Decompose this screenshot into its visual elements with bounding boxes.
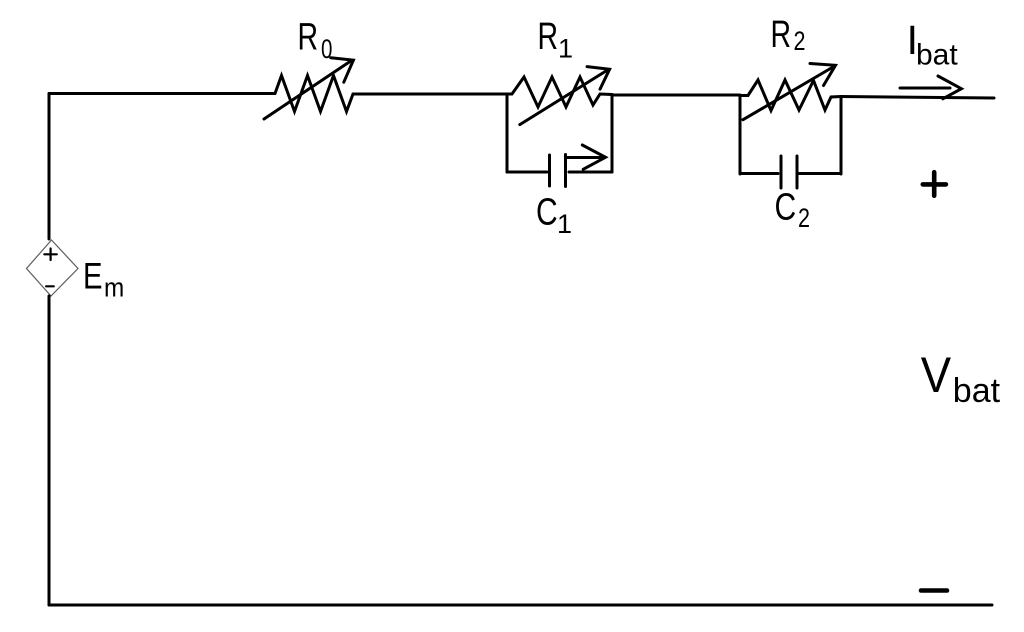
wire: top rail between R1 and R2 <box>612 94 740 97</box>
label Vbat <box>921 348 1001 410</box>
svg-text:V: V <box>921 348 951 403</box>
wire: C2 right lead <box>799 172 841 175</box>
label Ibat <box>907 17 959 72</box>
wire: top rail left segment <box>49 92 275 95</box>
resistor R1 (variable resistor: zigzag with diagonal arrow) <box>507 67 612 125</box>
wire: C2 left lead <box>740 172 778 175</box>
label Em <box>83 257 124 303</box>
svg-text:R: R <box>771 14 792 56</box>
resistor R0 (variable resistor: zigzag with diagonal arrow) <box>264 58 353 119</box>
label R2 <box>771 14 806 56</box>
wire: left vertical from Em to bottom rail <box>48 296 51 605</box>
svg-text:1: 1 <box>557 209 572 239</box>
capacitor C2 (plates) <box>781 156 797 188</box>
wire: R1 block right vertical <box>611 95 614 173</box>
label + (Vbat positive terminal) <box>923 172 946 196</box>
svg-text:R: R <box>298 17 319 59</box>
svg-text:m: m <box>104 273 124 302</box>
svg-text:2: 2 <box>794 27 806 57</box>
wire: top rail right segment <box>841 97 994 99</box>
svg-text:bat: bat <box>916 39 958 72</box>
current arrow Ibat <box>900 76 961 99</box>
svg-text:1: 1 <box>558 34 573 64</box>
wire: R2 block left vertical <box>739 96 742 175</box>
wire: C1 left lead <box>507 171 547 174</box>
svg-text:2: 2 <box>798 204 810 234</box>
label C1 <box>536 191 572 239</box>
wire: bottom rail <box>49 604 992 607</box>
wire: top rail between R0 and R1 <box>353 93 507 96</box>
label R1 <box>538 16 574 63</box>
voltage source Em (controlled-source diamond with + and - marks) <box>27 240 79 296</box>
label − (Vbat negative terminal) <box>921 588 947 593</box>
label R0 <box>298 17 333 65</box>
svg-text:R: R <box>538 16 559 58</box>
svg-text:C: C <box>775 186 797 228</box>
resistor R2 (variable resistor: zigzag with diagonal arrow) <box>740 64 841 120</box>
wire: left vertical from top rail down to Em <box>48 94 51 240</box>
wire: R1 block left vertical <box>506 94 509 172</box>
svg-text:E: E <box>83 257 102 298</box>
svg-text:0: 0 <box>321 34 332 64</box>
label C2 <box>775 186 811 233</box>
svg-text:C: C <box>536 191 558 233</box>
wire: C1 right lead <box>569 171 612 174</box>
svg-text:bat: bat <box>953 372 1001 410</box>
capacitor C1 (plates with variable arrow) <box>550 145 606 187</box>
wire: R2 block right vertical <box>840 97 843 175</box>
